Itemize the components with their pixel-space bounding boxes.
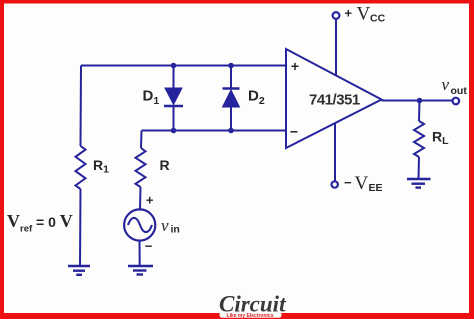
node junction D1 bottom [171, 128, 177, 134]
svg-text:741/351: 741/351 [309, 92, 360, 109]
wire D1 top stub [173, 66, 175, 89]
terminal +VCC [333, 12, 340, 19]
wire R top vertical [140, 131, 143, 149]
wire D2 bottom stub [230, 107, 232, 131]
svg-text:out: out [451, 85, 468, 97]
wire D2 top stub [230, 66, 232, 89]
svg-text:−: − [344, 175, 352, 190]
wire VCC to op-amp [335, 19, 337, 75]
terminal vout [453, 98, 460, 105]
wire top rail (non-inverting input net) [81, 65, 286, 67]
wire output [382, 100, 453, 102]
node junction D2 bottom [228, 128, 234, 134]
svg-text:+: + [146, 193, 154, 208]
svg-text:EE: EE [369, 182, 383, 194]
op-amp U1 741/351 [286, 49, 382, 148]
svg-text:+: + [291, 58, 299, 74]
terminal -VEE [332, 181, 338, 187]
svg-text:−: − [145, 239, 153, 254]
ground under RL [407, 179, 431, 188]
wire R1 to ground [79, 189, 82, 266]
wire RL to ground [418, 157, 421, 179]
resistor RL [414, 121, 424, 157]
svg-text:−: − [290, 124, 298, 140]
node junction D2 top [228, 63, 234, 69]
diode D2 [223, 89, 240, 108]
resistor R [136, 148, 146, 187]
wire R to source [139, 187, 142, 210]
diode D1 [164, 88, 183, 106]
wire source to ground [139, 241, 141, 266]
resistor R1 [76, 146, 86, 189]
svg-text:CC: CC [370, 13, 386, 25]
source vin (AC source) [124, 209, 155, 240]
svg-text:V: V [357, 4, 371, 25]
svg-text:Like my Electronics: Like my Electronics [227, 313, 274, 319]
svg-text:R: R [160, 157, 170, 173]
sine wave inside source [128, 218, 152, 232]
svg-text:in: in [171, 224, 180, 236]
svg-text:v: v [161, 216, 169, 235]
ground under R1 [68, 266, 90, 275]
svg-text:+: + [345, 6, 353, 21]
wire op-amp to VEE [334, 123, 336, 181]
wire bottom rail (inverting input net) [142, 130, 287, 132]
watermark white tab [220, 312, 282, 318]
svg-text:V: V [355, 173, 369, 194]
node junction D1 top [171, 63, 177, 69]
svg-text:v: v [442, 75, 450, 94]
wire R1 branch vertical [80, 66, 83, 147]
wire D1 bottom stub [173, 106, 175, 131]
node output junction [417, 98, 423, 104]
ground under source [128, 266, 153, 275]
wire RL top [418, 101, 421, 122]
